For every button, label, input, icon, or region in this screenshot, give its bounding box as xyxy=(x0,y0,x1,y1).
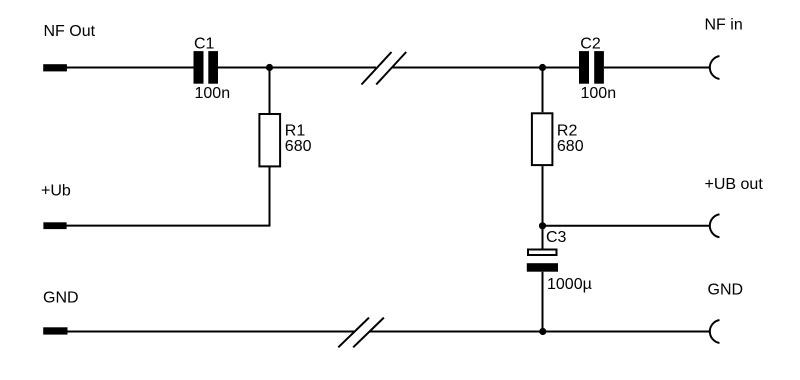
svg-text:NF Out: NF Out xyxy=(44,23,96,40)
svg-text:100n: 100n xyxy=(195,85,231,102)
svg-text:C2: C2 xyxy=(580,35,601,52)
svg-text:+UB out: +UB out xyxy=(705,176,764,193)
svg-text:GND: GND xyxy=(708,282,744,299)
svg-text:680: 680 xyxy=(285,138,312,155)
svg-text:R2: R2 xyxy=(557,122,578,139)
svg-text:C3: C3 xyxy=(546,229,567,246)
svg-text:100n: 100n xyxy=(581,85,617,102)
svg-text:+Ub: +Ub xyxy=(41,182,71,199)
svg-text:NF in: NF in xyxy=(705,17,743,34)
svg-text:C1: C1 xyxy=(194,35,215,52)
svg-text:1000µ: 1000µ xyxy=(547,276,592,293)
svg-text:GND: GND xyxy=(43,289,79,306)
svg-text:R1: R1 xyxy=(285,122,306,139)
svg-text:680: 680 xyxy=(557,138,584,155)
